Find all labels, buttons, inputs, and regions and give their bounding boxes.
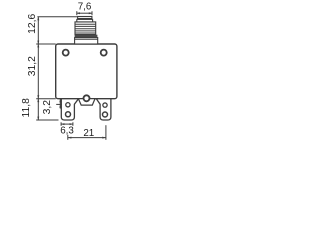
arrows on column — [37, 17, 39, 120]
extension at terminal bottom — [36, 119, 58, 121]
extension at body top — [36, 43, 56, 45]
threaded bushing — [75, 22, 96, 35]
bushing base — [75, 38, 98, 44]
terminal left small hole — [66, 103, 70, 107]
dim column vertical line — [37, 17, 39, 120]
extension to button top — [37, 16, 77, 18]
extension at body bottom — [36, 98, 56, 100]
dim 3,2 line — [56, 99, 62, 109]
body of breaker — [56, 44, 117, 99]
svg-text:31,2: 31,2 — [27, 56, 38, 76]
rivet right — [101, 50, 107, 56]
dim 7,6 line — [77, 11, 92, 15]
svg-text:11,8: 11,8 — [21, 98, 32, 118]
terminal left big hole — [66, 112, 71, 117]
terminal right small hole — [103, 103, 107, 107]
centre lug ring — [84, 95, 90, 101]
svg-text:12,6: 12,6 — [27, 14, 38, 34]
terminal right — [96, 99, 111, 120]
svg-text:7,6: 7,6 — [78, 1, 92, 12]
terminal left — [61, 99, 78, 120]
rivet left — [63, 50, 69, 56]
push button flange — [77, 19, 93, 22]
centre lug — [78, 99, 95, 105]
dim 6,3 ticks — [61, 122, 73, 126]
bushing nut band — [75, 35, 98, 38]
svg-text:6,3: 6,3 — [60, 125, 74, 136]
terminal right big hole — [103, 112, 108, 117]
dim 21 line — [68, 125, 106, 140]
svg-text:3,2: 3,2 — [42, 100, 53, 115]
svg-text:21: 21 — [83, 128, 94, 139]
push button cap — [78, 17, 92, 19]
